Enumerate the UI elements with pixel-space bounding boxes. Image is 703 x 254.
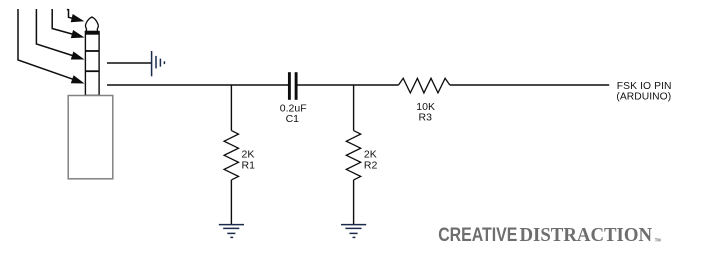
arrowhead 3 [71, 30, 85, 38]
leader line to ring2 (arrow 2) [36, 9, 73, 56]
wire: jack to C1 (through node A) [107, 84, 288, 86]
resistor R1 zigzag [224, 131, 238, 180]
audio jack J1: separator ring 2 [85, 70, 99, 72]
capacitor C1 plates [288, 72, 291, 100]
audio jack J1: separator ring 1 [85, 50, 99, 52]
wire: node A down to R1 [230, 85, 232, 131]
svg-text:R1: R1 [242, 159, 256, 171]
audio jack J1: barrel [85, 32, 99, 96]
svg-text:C1: C1 [286, 113, 300, 125]
audio jack J1: body [68, 96, 113, 179]
svg-text:TM: TM [655, 237, 662, 242]
ground (under R1) [219, 225, 244, 238]
wire: R2 to ground [353, 180, 355, 225]
audio jack J1: tip dome [85, 17, 98, 31]
ground (sideways, at jack) [152, 51, 165, 76]
ground (under R2) [341, 225, 366, 238]
wire: node B down to R2 [353, 85, 355, 131]
leader line to sleeve (arrow 1) [18, 9, 74, 79]
arrowhead 1 [71, 75, 85, 83]
svg-text:R2: R2 [364, 159, 378, 171]
arrowhead 4 [71, 14, 85, 22]
leader line to ring1 (arrow 3) [52, 9, 73, 34]
audio jack J1: insulator band (black) [85, 32, 99, 35]
wire: R3 to output [450, 84, 609, 86]
wire: R1 to ground [230, 180, 232, 225]
svg-text:DISTRACTION: DISTRACTION [520, 225, 653, 247]
svg-text:(ARDUINO): (ARDUINO) [616, 92, 671, 103]
leader line to tip (arrow 4) [67, 9, 73, 19]
arrowhead 2 [71, 52, 85, 60]
resistor R3 zigzag [399, 78, 450, 93]
resistor R2 zigzag [346, 131, 360, 180]
svg-text:R3: R3 [419, 112, 433, 124]
wire: C1 to R3 (through node B) [297, 84, 399, 86]
svg-text:CREATIVE: CREATIVE [438, 223, 517, 245]
wire from jack to chassis ground [107, 62, 151, 64]
svg-text:FSK IO PIN: FSK IO PIN [617, 81, 672, 92]
